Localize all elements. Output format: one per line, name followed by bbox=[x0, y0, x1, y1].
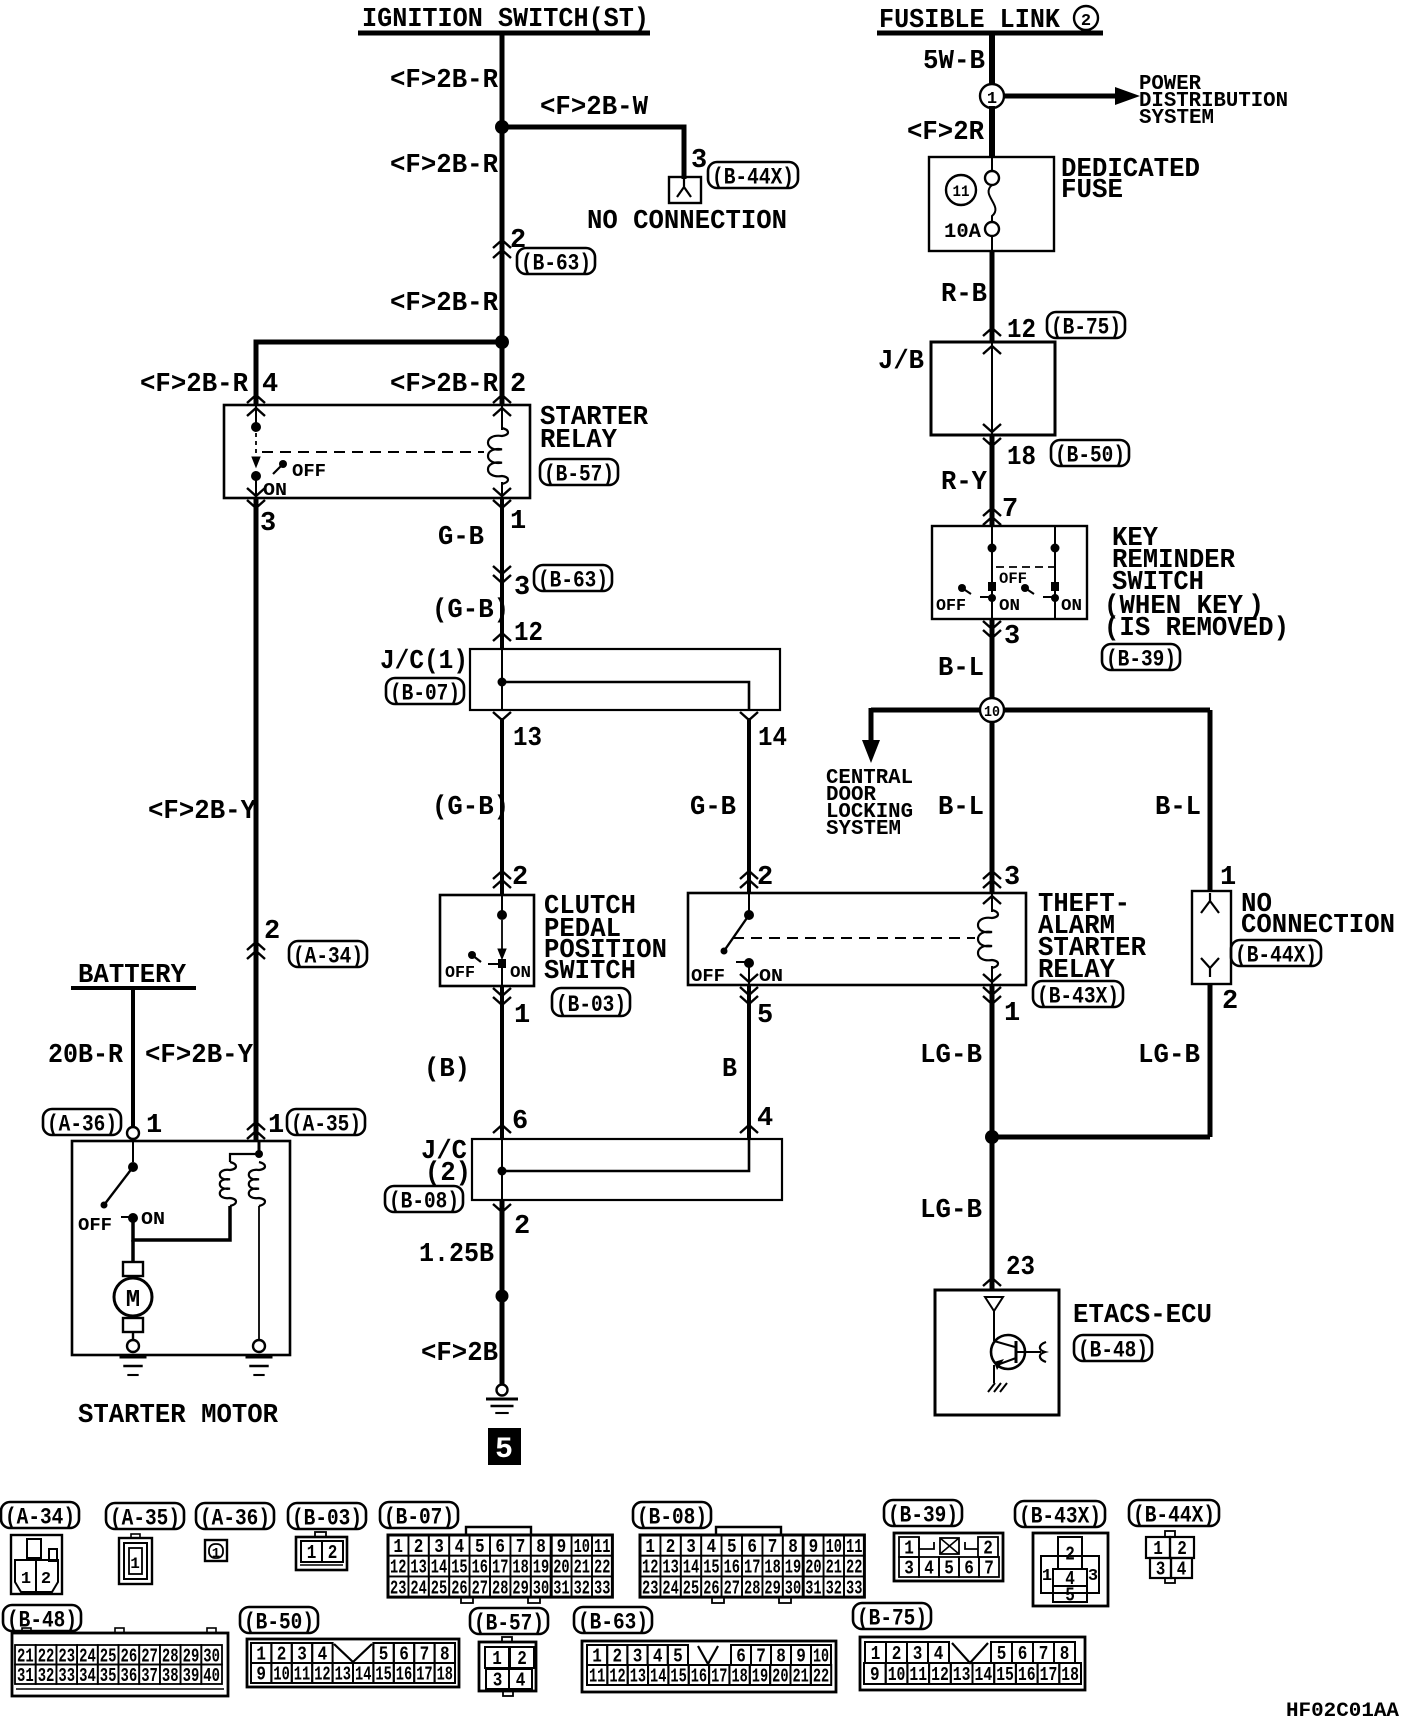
connector label B-44X right bbox=[1231, 940, 1321, 966]
connector B-48 tab 1 bbox=[22, 1628, 31, 1633]
SM motor to ground bbox=[132, 1332, 134, 1340]
pin chevron clutch1 b bbox=[493, 997, 511, 1005]
B-48 pin 31 bbox=[15, 1665, 36, 1685]
connector B-08 grid bbox=[660, 1576, 680, 1597]
svg-text:34: 34 bbox=[79, 1665, 96, 1687]
svg-text:2: 2 bbox=[517, 1648, 527, 1670]
transistor base lead bbox=[1016, 1351, 1041, 1353]
connector B-08 grid bbox=[640, 1535, 660, 1556]
svg-text:(A-34): (A-34) bbox=[5, 1504, 75, 1530]
pin chevron clutch2 a bbox=[493, 871, 511, 879]
pin chevron relay out1 b bbox=[493, 500, 511, 508]
svg-text:5W-B: 5W-B bbox=[923, 47, 985, 77]
clutch ON tick bbox=[488, 963, 498, 965]
svg-text:J/C(1): J/C(1) bbox=[380, 647, 468, 677]
B-75 pin 1 bbox=[865, 1642, 886, 1663]
connector B-07 grid bbox=[429, 1576, 449, 1597]
ground symbol SM left bbox=[127, 1374, 138, 1376]
svg-text:11: 11 bbox=[294, 1664, 310, 1686]
svg-text:(B-43X): (B-43X) bbox=[1037, 983, 1119, 1009]
connector label B-57 bbox=[540, 459, 618, 485]
wire B-L down bbox=[990, 619, 995, 698]
svg-text:11: 11 bbox=[846, 1536, 862, 1558]
wire (B) down bbox=[500, 986, 504, 1139]
SM ground eyelet right bbox=[253, 1340, 265, 1352]
connector B-07 grid bbox=[429, 1535, 449, 1556]
wire inside theft top bbox=[748, 893, 750, 915]
svg-text:1: 1 bbox=[212, 1546, 220, 1562]
svg-text:4: 4 bbox=[262, 370, 278, 400]
svg-text:ETACS-ECU: ETACS-ECU bbox=[1073, 1301, 1212, 1331]
B-39 pin 2 bbox=[978, 1537, 998, 1557]
B-50 pin 8 bbox=[435, 1643, 455, 1663]
wire inside theft bottom bbox=[748, 963, 750, 985]
transistor emitter bbox=[997, 1358, 1016, 1365]
B-39 pin 4 bbox=[919, 1557, 939, 1577]
connector B-08 grid bbox=[660, 1556, 680, 1577]
svg-text:M: M bbox=[126, 1287, 140, 1314]
svg-text:14: 14 bbox=[758, 724, 787, 754]
B-48 pin 21 bbox=[15, 1645, 36, 1665]
connector B-08 grid bbox=[783, 1576, 803, 1597]
pin chevron relay out1 a bbox=[493, 488, 511, 496]
svg-text:6: 6 bbox=[512, 1107, 528, 1137]
ground symbol main bbox=[486, 1398, 518, 1401]
connector B-39 key box bbox=[940, 1538, 959, 1554]
svg-text:SYSTEM: SYSTEM bbox=[826, 818, 901, 841]
B-50 pin 3 bbox=[292, 1643, 312, 1663]
B-39 pin 6 bbox=[959, 1557, 979, 1577]
wire LG-B joining link bbox=[992, 1135, 1210, 1140]
B-75 pin 3 bbox=[907, 1642, 928, 1663]
connector B-08 grid bbox=[681, 1535, 701, 1556]
connector label A-35 strip bbox=[106, 1503, 184, 1529]
wire (F)2R down bbox=[989, 106, 995, 157]
ground symbol SM right bbox=[253, 1374, 264, 1376]
svg-text:18: 18 bbox=[512, 1557, 528, 1579]
svg-text:13: 13 bbox=[630, 1666, 646, 1688]
B-50 pin 1 bbox=[251, 1643, 271, 1663]
key dashed link bbox=[996, 566, 1054, 568]
no-connection fork symbol bbox=[677, 179, 691, 197]
fusible link bus underline bbox=[877, 31, 1103, 36]
connector label B-63 strip bbox=[574, 1607, 652, 1633]
wire node10 left arm bbox=[871, 708, 981, 713]
B-63 pin 1 bbox=[587, 1645, 607, 1665]
wire inside fuse bottom bbox=[991, 236, 993, 251]
svg-text:19: 19 bbox=[533, 1557, 549, 1579]
svg-text:4: 4 bbox=[757, 1104, 773, 1134]
svg-text:G-B: G-B bbox=[438, 523, 484, 553]
svg-text:29: 29 bbox=[764, 1577, 780, 1599]
svg-text:(B-44X): (B-44X) bbox=[1133, 1502, 1215, 1528]
pin chevron relay pin4 a bbox=[247, 395, 265, 403]
wire (G-B) down to clutch bbox=[500, 718, 504, 895]
connector label A-34 mid bbox=[289, 941, 367, 967]
wire inside clutch bottom bbox=[501, 968, 503, 986]
connector B-07 tab left bbox=[461, 1597, 473, 1603]
B-44X pin 3 bbox=[1150, 1558, 1171, 1578]
svg-text:5: 5 bbox=[727, 1536, 737, 1558]
B-48 pin 27 bbox=[139, 1645, 160, 1665]
B-03 pin 1 bbox=[301, 1541, 322, 1562]
SM ON contact bbox=[128, 1213, 138, 1223]
wire to power distribution bbox=[1004, 94, 1118, 99]
pin chevron relay out3 a bbox=[247, 488, 265, 496]
svg-text:ON: ON bbox=[141, 1210, 165, 1230]
wire LG-B right down bbox=[1208, 984, 1213, 1137]
pin chevron relay pin2 a bbox=[493, 395, 511, 403]
svg-text:2: 2 bbox=[510, 370, 526, 400]
svg-text:7: 7 bbox=[1039, 1643, 1049, 1665]
SM lever tip bbox=[101, 1202, 108, 1209]
B-48 pin 29 bbox=[181, 1645, 202, 1665]
B-75 pin 17 bbox=[1038, 1663, 1060, 1684]
pin chevron theft5 a bbox=[740, 987, 758, 995]
svg-text:7: 7 bbox=[768, 1536, 778, 1558]
svg-text:(B-48): (B-48) bbox=[1078, 1337, 1148, 1363]
connector junction A-34 b bbox=[247, 951, 265, 959]
B-48 pin 28 bbox=[160, 1645, 181, 1665]
svg-text:27: 27 bbox=[724, 1577, 740, 1599]
B-63 pin 16 bbox=[689, 1665, 709, 1685]
svg-text:LG-B: LG-B bbox=[920, 1041, 982, 1071]
B-63 pin 2 bbox=[607, 1645, 627, 1665]
connector B-07 grid bbox=[490, 1556, 510, 1577]
connector B-08 grid bbox=[701, 1556, 721, 1577]
wire relay contact stub top bbox=[255, 405, 257, 427]
svg-text:33: 33 bbox=[594, 1577, 610, 1599]
svg-text:26: 26 bbox=[451, 1577, 467, 1599]
wire G-B down to theft relay bbox=[747, 718, 751, 893]
splice node 1 circle bbox=[980, 84, 1004, 108]
svg-text:17: 17 bbox=[492, 1557, 508, 1579]
connector B-07 grid bbox=[388, 1535, 408, 1556]
svg-text:9: 9 bbox=[870, 1664, 880, 1686]
junction node LG-B bbox=[985, 1130, 999, 1144]
theft lever tip bbox=[721, 948, 728, 955]
theft switch pivot bbox=[744, 910, 754, 920]
B-75 pin 9 bbox=[864, 1663, 886, 1684]
svg-text:(B-39): (B-39) bbox=[1106, 646, 1176, 672]
svg-text:36: 36 bbox=[121, 1665, 138, 1687]
svg-text:G-B: G-B bbox=[690, 793, 736, 823]
svg-text:B-L: B-L bbox=[1155, 793, 1201, 823]
clutch switch stem bbox=[501, 920, 503, 949]
pin chevron key7 a bbox=[983, 508, 1001, 516]
pin chevron theft3 b bbox=[983, 880, 1001, 888]
svg-text:(B-75): (B-75) bbox=[857, 1605, 927, 1631]
svg-text:1: 1 bbox=[645, 1536, 655, 1558]
relay contact lower bbox=[251, 471, 261, 481]
B-75 pin 11 bbox=[907, 1663, 929, 1684]
pin chevron relay pin4 b bbox=[247, 408, 265, 416]
B-03 pin 2 bbox=[322, 1541, 343, 1562]
terminal eyelet A-36 bbox=[127, 1127, 139, 1139]
B-63 pin 18 bbox=[729, 1665, 749, 1685]
wire inside key main bbox=[991, 526, 993, 619]
connector B-08 grid bbox=[844, 1576, 864, 1597]
connector B-07 grid bbox=[490, 1576, 510, 1597]
svg-text:<F>2B-Y: <F>2B-Y bbox=[145, 1041, 254, 1071]
wire G-B down bbox=[500, 498, 504, 649]
pin chevron key7 b bbox=[983, 517, 1001, 525]
svg-text:ON: ON bbox=[263, 481, 287, 501]
svg-text:31: 31 bbox=[805, 1577, 821, 1599]
relay contact arrow bbox=[252, 457, 260, 467]
connector label B-63 mid bbox=[534, 565, 612, 591]
svg-text:18: 18 bbox=[731, 1666, 747, 1688]
svg-text:2: 2 bbox=[1081, 12, 1091, 31]
connector B-08 grid bbox=[742, 1556, 762, 1577]
svg-text:(B-44X): (B-44X) bbox=[712, 164, 794, 190]
wire relay coil stub bottom bbox=[501, 482, 503, 498]
connector B-39 outline bbox=[894, 1533, 1003, 1581]
svg-text:31: 31 bbox=[17, 1665, 34, 1687]
wire relay contact stub bottom bbox=[255, 478, 257, 498]
connector B-08 grid bbox=[824, 1556, 844, 1577]
svg-text:33: 33 bbox=[846, 1577, 862, 1599]
battery bus underline bbox=[71, 986, 196, 990]
connector B-44X top tab bbox=[1165, 1531, 1175, 1537]
connector B-07 grid bbox=[449, 1576, 469, 1597]
svg-text:<F>2B-R: <F>2B-R bbox=[390, 370, 499, 400]
svg-text:24: 24 bbox=[410, 1577, 426, 1599]
svg-text:22: 22 bbox=[813, 1666, 829, 1688]
B-63 pin 21 bbox=[791, 1665, 811, 1685]
svg-text:5: 5 bbox=[1065, 1585, 1075, 1607]
connector label B-39 bbox=[1102, 644, 1180, 670]
key ON tick left bbox=[980, 596, 989, 598]
fuse number circle 11 bbox=[946, 175, 976, 205]
key ON contact right bbox=[1051, 582, 1059, 591]
pin chevron theft3 inside bbox=[983, 896, 1001, 904]
connector label A-36 bbox=[43, 1109, 121, 1135]
B-75 pin 4 bbox=[928, 1642, 949, 1663]
B-57 pin 2 bbox=[510, 1647, 534, 1668]
svg-text:(B-63): (B-63) bbox=[521, 250, 591, 276]
connector B-07 grid bbox=[572, 1556, 592, 1577]
connector A-35 outline bbox=[119, 1538, 152, 1584]
pin chevron clutch1 a bbox=[493, 988, 511, 996]
B-50 pin 5 bbox=[373, 1643, 393, 1663]
B-50 pin 14 bbox=[353, 1663, 373, 1683]
svg-text:6: 6 bbox=[495, 1536, 505, 1558]
svg-text:39: 39 bbox=[183, 1665, 200, 1687]
svg-text:10: 10 bbox=[984, 704, 1000, 721]
arrowhead central door locking bbox=[862, 740, 880, 763]
connector B-57 bottom tab bbox=[503, 1691, 513, 1696]
svg-text:14: 14 bbox=[355, 1664, 371, 1686]
pin chevron theft1 inside bbox=[983, 974, 1001, 982]
connector A-34 outline bbox=[11, 1535, 62, 1594]
svg-text:1: 1 bbox=[146, 1111, 162, 1141]
svg-text:5: 5 bbox=[475, 1536, 485, 1558]
svg-text:FUSE: FUSE bbox=[1061, 176, 1123, 206]
svg-text:B: B bbox=[722, 1055, 737, 1085]
key ON contact left bbox=[988, 582, 996, 591]
B-63 pin 13 bbox=[628, 1665, 648, 1685]
connector B-07 grid bbox=[449, 1556, 469, 1577]
svg-text:19: 19 bbox=[785, 1557, 801, 1579]
pin chevron JC1 14 bbox=[740, 712, 758, 720]
title circled 2 bbox=[1074, 6, 1098, 30]
svg-text:3: 3 bbox=[686, 1536, 696, 1558]
svg-text:3: 3 bbox=[913, 1643, 923, 1665]
wire theft coil stub top bbox=[991, 893, 993, 912]
svg-text:CONNECTION: CONNECTION bbox=[1241, 911, 1395, 941]
svg-text:12: 12 bbox=[642, 1557, 658, 1579]
connector B-08 grid bbox=[742, 1576, 762, 1597]
svg-text:(B-48): (B-48) bbox=[7, 1607, 77, 1633]
fuse element bottom terminal bbox=[985, 222, 999, 236]
svg-text:25: 25 bbox=[431, 1577, 447, 1599]
transistor collector bbox=[994, 1341, 1015, 1347]
connector label A-34 strip bbox=[1, 1502, 79, 1528]
etacs input triangle bbox=[985, 1297, 1003, 1311]
wire R-B down bbox=[990, 251, 995, 342]
svg-text:ON: ON bbox=[999, 597, 1020, 616]
svg-text:(A-35): (A-35) bbox=[291, 1111, 361, 1137]
svg-text:(B-50): (B-50) bbox=[244, 1609, 314, 1635]
B-75 pin 13 bbox=[951, 1663, 973, 1684]
ground reference 5 box bbox=[488, 1428, 521, 1465]
B-48 pin 39 bbox=[181, 1665, 202, 1685]
svg-text:27: 27 bbox=[472, 1577, 488, 1599]
pin chevron JC1 13 bbox=[493, 712, 511, 720]
svg-text:21: 21 bbox=[793, 1666, 809, 1688]
B-75 pin 6 bbox=[1012, 1642, 1033, 1663]
svg-text:3: 3 bbox=[1004, 622, 1020, 652]
connector B-50 outline bbox=[247, 1639, 459, 1687]
svg-text:1: 1 bbox=[871, 1643, 881, 1665]
wire relay coil stub top bbox=[501, 405, 503, 430]
B-75 pin 14 bbox=[973, 1663, 995, 1684]
B-48 pin 37 bbox=[139, 1665, 160, 1685]
nc bottom Y symbol bbox=[1201, 958, 1219, 977]
connector junction A-34 a bbox=[247, 942, 265, 950]
svg-text:23: 23 bbox=[390, 1577, 406, 1599]
svg-text:R-Y: R-Y bbox=[941, 468, 988, 498]
svg-text:17: 17 bbox=[744, 1557, 760, 1579]
wire central door drop bbox=[869, 708, 874, 742]
svg-text:OFF: OFF bbox=[936, 597, 966, 616]
svg-text:3: 3 bbox=[904, 1558, 914, 1580]
svg-text:17: 17 bbox=[711, 1666, 727, 1688]
etacs internal resistor squiggle bbox=[1040, 1342, 1046, 1362]
svg-text:32: 32 bbox=[826, 1577, 842, 1599]
B-50 pin 4 bbox=[312, 1643, 332, 1663]
transistor Q1 circle bbox=[991, 1335, 1025, 1369]
splice node 10 circle bbox=[980, 698, 1004, 722]
junction node JC1 bbox=[498, 678, 507, 687]
SM switch lever bbox=[104, 1167, 133, 1205]
connector B-07 grid bbox=[592, 1535, 612, 1556]
B-39 pin 3 bbox=[899, 1557, 919, 1577]
connector B-07 grid bbox=[470, 1576, 490, 1597]
connector B-07 grid bbox=[531, 1535, 551, 1556]
svg-text:8: 8 bbox=[788, 1536, 798, 1558]
B-48 pin 38 bbox=[160, 1665, 181, 1685]
svg-text:4: 4 bbox=[1177, 1559, 1187, 1581]
pin chevron relay out3 b bbox=[247, 500, 265, 508]
pin chevron JB out 18 bbox=[983, 438, 1001, 446]
connector B-08 grid bbox=[803, 1576, 823, 1597]
B-63 pin 6 bbox=[731, 1645, 751, 1665]
connector A-34 top pin bbox=[27, 1539, 41, 1558]
svg-text:2: 2 bbox=[1222, 987, 1238, 1017]
B-48 pin 26 bbox=[119, 1645, 140, 1665]
connector B-08 grid bbox=[681, 1556, 701, 1577]
connector label B-07 bbox=[386, 678, 464, 704]
svg-text:1: 1 bbox=[268, 1111, 284, 1141]
B-48 pin 24 bbox=[77, 1645, 98, 1665]
svg-text:(B-03): (B-03) bbox=[292, 1505, 362, 1531]
connector B-08 grid bbox=[762, 1576, 782, 1597]
svg-text:21: 21 bbox=[574, 1557, 590, 1579]
svg-text:4: 4 bbox=[516, 1670, 526, 1692]
svg-text:<F>2R: <F>2R bbox=[907, 118, 985, 148]
pin chevron relay pin2 b bbox=[493, 408, 511, 416]
svg-text:(B-03): (B-03) bbox=[556, 992, 626, 1018]
wire inside key second pole bbox=[1054, 526, 1056, 619]
junction node JC2 bbox=[498, 1167, 507, 1176]
connector label B-07 strip bbox=[380, 1502, 458, 1528]
connector B-57 outline bbox=[479, 1642, 536, 1691]
svg-text:9: 9 bbox=[557, 1536, 567, 1558]
svg-text:19: 19 bbox=[752, 1666, 768, 1688]
B-57 pin 1 bbox=[485, 1647, 509, 1668]
svg-text:35: 35 bbox=[100, 1665, 117, 1687]
svg-text:30: 30 bbox=[785, 1577, 801, 1599]
ground symbol SM left bbox=[120, 1356, 147, 1359]
connector A-34 divider bbox=[35, 1560, 37, 1592]
svg-text:10: 10 bbox=[574, 1536, 590, 1558]
motor brush top bbox=[123, 1262, 143, 1276]
connector label B-43X bbox=[1033, 981, 1123, 1007]
svg-text:(B-57): (B-57) bbox=[544, 461, 614, 487]
SM coil top node bbox=[255, 1150, 263, 1158]
B-75 pin 12 bbox=[929, 1663, 951, 1684]
fuse element top terminal bbox=[985, 171, 999, 185]
junction connector J/C(2) box bbox=[472, 1139, 782, 1200]
clutch pedal position switch box bbox=[440, 895, 534, 986]
connector B-43X outline bbox=[1033, 1533, 1108, 1606]
svg-text:R-B: R-B bbox=[941, 280, 987, 310]
wire node10 right arm bbox=[1003, 708, 1210, 713]
svg-text:15: 15 bbox=[451, 1557, 467, 1579]
connector B-57 top tab bbox=[502, 1637, 512, 1642]
theft ON tick bbox=[736, 961, 746, 963]
svg-text:4: 4 bbox=[455, 1536, 465, 1558]
svg-text:(B-08): (B-08) bbox=[389, 1188, 459, 1214]
svg-text:15: 15 bbox=[703, 1557, 719, 1579]
wire branch left to relay contact bbox=[256, 342, 502, 405]
SM hold-in coil bbox=[249, 1162, 265, 1206]
svg-text:5: 5 bbox=[757, 1001, 773, 1031]
key switch node right bbox=[1051, 544, 1060, 553]
connector B-07 tab right bbox=[528, 1597, 540, 1603]
svg-text:(IS REMOVED): (IS REMOVED) bbox=[1104, 614, 1289, 644]
connector B-07 grid bbox=[470, 1535, 490, 1556]
connector B-43X inner frame bbox=[1041, 1556, 1099, 1593]
wire JC1 cross link bbox=[502, 682, 749, 710]
svg-text:32: 32 bbox=[574, 1577, 590, 1599]
pin chevron JC1 12 bbox=[493, 633, 511, 641]
svg-text:2: 2 bbox=[757, 863, 773, 893]
connector B-07 grid bbox=[449, 1535, 469, 1556]
svg-text:9: 9 bbox=[256, 1664, 266, 1686]
